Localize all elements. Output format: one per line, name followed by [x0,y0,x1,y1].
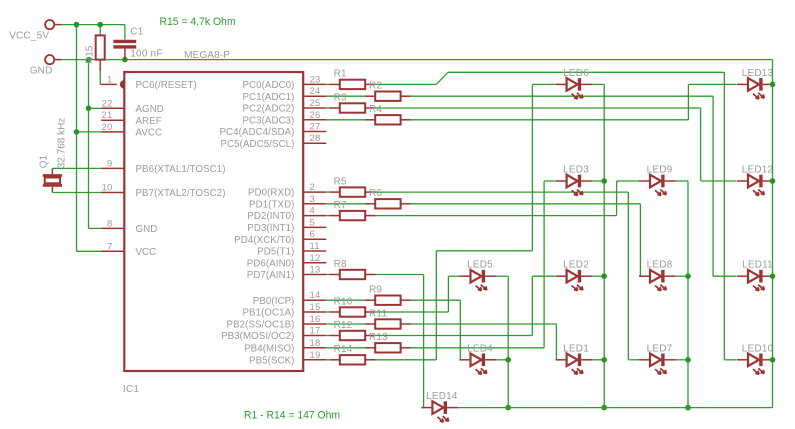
LED LED13 [737,68,774,99]
svg-text:LED3: LED3 [563,165,589,176]
svg-text:24: 24 [310,86,321,97]
svg-text:PC2(ADC2): PC2(ADC2) [242,104,294,115]
svg-text:LED5: LED5 [467,260,493,271]
svg-text:20: 20 [102,122,113,133]
IC1 pin 26 PC3(ADC3) [242,110,326,127]
svg-text:PC1(ADC1): PC1(ADC1) [242,92,294,103]
IC1 pin 11 PD5(T1) [257,241,326,258]
wire cathode rail column 3 [676,181,691,410]
svg-text:27: 27 [310,122,321,133]
wire net R9 to LED4 [411,300,460,360]
svg-text:R13: R13 [369,332,388,343]
LED LED4 [460,343,497,374]
svg-text:R12: R12 [334,320,353,331]
resistor R13 [365,332,411,352]
LED LED3 [556,165,593,196]
wire pin17 to R12 [326,335,329,337]
IC1 pin 5 PD3(INT1) [247,217,326,234]
svg-text:PB7(XTAL2/TOSC2): PB7(XTAL2/TOSC2) [136,188,226,199]
svg-text:LED8: LED8 [647,260,673,271]
svg-text:R9: R9 [369,285,382,296]
IC1 pin 21 AREF [101,110,162,127]
IC1 pin 19 PB5(SCK) [249,350,326,367]
capacitor C1 [113,25,162,60]
resistor R10 [329,296,375,316]
IC1 pin 3 PD1(TXD) [249,194,326,211]
wire pin14 to R9 [326,299,365,301]
IC1 pin 8 GND [101,218,157,235]
svg-text:LED6: LED6 [563,68,589,79]
svg-text:PD3(INT1): PD3(INT1) [247,223,294,234]
svg-text:LED13: LED13 [742,68,774,79]
wire pin16 to R11 [326,323,365,325]
svg-text:28: 28 [310,133,321,144]
wire pin23 to R1 [326,83,329,85]
wire cathode rail column 1 [496,276,511,410]
svg-text:VCC: VCC [136,247,157,258]
LED LED14 [421,391,458,422]
svg-text:PC4(ADC4/SDA): PC4(ADC4/SDA) [219,127,294,138]
wire pin25 to R3 [326,107,329,109]
wire pin18 to R13 [326,347,365,349]
svg-text:LED7: LED7 [647,343,673,354]
svg-text:LED14: LED14 [426,391,458,402]
svg-text:9: 9 [107,158,112,169]
svg-text:13: 13 [310,265,321,276]
svg-text:12: 12 [310,253,321,264]
svg-text:PB5(SCK): PB5(SCK) [249,355,294,366]
svg-text:LED10: LED10 [742,343,774,354]
IC1 pin 15 PB1(OC1A) [242,302,326,319]
IC1 pin 23 PC0(ADC0) [242,74,326,91]
svg-text:PB1(OC1A): PB1(OC1A) [242,308,294,319]
resistor R8 [329,259,375,279]
resistor R9 [365,285,411,305]
wire pin13 to R8 [326,274,329,276]
resistor R4 [365,104,411,124]
wire net R2 to LED11 [411,96,737,276]
IC1 pin 20 AVCC [101,122,162,139]
resistor R1 [329,69,375,89]
svg-text:R1 - R14 = 147 Ohm: R1 - R14 = 147 Ohm [244,410,340,422]
IC1 pin 16 PB2(SS/OC1B) [227,314,327,331]
IC1 pin 27 PC4(ADC4/SDA) [219,122,326,139]
wire pin4 to R7 [326,215,329,217]
svg-text:R11: R11 [369,308,387,319]
wire net R14 to LED6 [376,84,556,359]
wire pin24 to R2 [326,95,365,97]
LED LED5 [460,260,497,291]
svg-text:Q1: Q1 [39,155,50,169]
svg-text:AREF: AREF [136,116,162,127]
svg-text:PD6(AIN0): PD6(AIN0) [247,258,295,269]
IC IC1 MEGA8-P body [123,50,303,395]
svg-text:25: 25 [310,98,321,109]
svg-text:MEGA8-P: MEGA8-P [184,50,230,61]
svg-text:PD1(TXD): PD1(TXD) [249,199,294,210]
svg-text:8: 8 [107,218,112,229]
svg-text:5: 5 [310,217,315,228]
svg-text:4: 4 [310,206,315,217]
svg-text:11: 11 [310,241,320,252]
svg-text:10: 10 [102,183,113,194]
svg-text:LED2: LED2 [563,260,589,271]
IC1 pin 14 PB0(ICP) [253,290,327,307]
LED LED2 [556,260,593,291]
svg-text:IC1: IC1 [123,384,139,395]
svg-text:PD5(T1): PD5(T1) [257,247,294,258]
svg-text:VCC_5V: VCC_5V [9,30,49,41]
resistor R14 [329,344,375,364]
svg-text:PD7(AIN1): PD7(AIN1) [247,270,295,281]
wire VCC net [62,22,125,252]
wire cathode rail column 4 [770,60,776,408]
svg-text:PD0(RXD): PD0(RXD) [248,188,295,199]
svg-text:R5: R5 [334,176,347,187]
svg-text:PC5(ADC5/SCL): PC5(ADC5/SCL) [221,139,295,150]
resistor R6 [365,188,411,208]
resistor R3 [329,92,375,112]
LED LED12 [737,165,774,196]
IC1 pin 12 PD6(AIN0) [247,253,327,270]
wire pin26 to R4 [326,119,365,121]
svg-text:15: 15 [310,302,321,313]
wire net R10 to LED5 [376,276,460,312]
svg-text:21: 21 [102,110,113,121]
svg-text:R6: R6 [369,188,382,199]
LED LED7 [639,343,676,374]
resistor R2 [365,81,411,101]
svg-text:PD2(INT0): PD2(INT0) [247,211,294,222]
wire GND net [62,57,773,229]
svg-text:R7: R7 [334,200,347,211]
crystal Q1 [39,118,68,193]
svg-text:PD4(XCK/T0): PD4(XCK/T0) [234,235,294,246]
svg-text:GND: GND [136,224,158,235]
svg-text:2: 2 [310,182,315,193]
resistor R12 [329,320,375,340]
svg-text:LED12: LED12 [742,165,774,176]
svg-text:LED4: LED4 [467,343,493,354]
wire net R3 to LED12 [376,108,737,181]
svg-text:R2: R2 [369,81,382,92]
svg-text:AVCC: AVCC [136,128,163,139]
IC1 pin 2 PD0(RXD) [248,182,326,199]
svg-text:14: 14 [310,290,321,301]
svg-text:6: 6 [310,229,315,240]
IC1 pin 22 AGND [101,98,164,115]
IC1 pin 10 PB7(XTAL2/TOSC2) [101,183,225,200]
wire net R8 to LED14 [376,275,424,408]
IC1 pin 17 PB3(MOSI/OC2) [221,326,326,343]
svg-text:R15: R15 [85,45,96,64]
svg-text:LED9: LED9 [647,165,673,176]
svg-text:22: 22 [102,98,113,109]
wire net R1 to LED10 [376,72,737,360]
wire net R6 to LED8 [411,204,650,276]
svg-text:C1: C1 [130,27,143,38]
IC1 pin 1 PC6(/RESET) [101,74,197,91]
resistor R7 [329,200,375,220]
resistor R5 [329,176,375,196]
wire pin19 to R14 [326,359,329,361]
supply pin VCC_5V [9,20,61,41]
wire crystal to pins 9 10 [52,168,101,192]
wire net R7 to LED9 [376,181,640,216]
wire pin15 to R10 [326,311,329,313]
svg-text:PC3(ADC3): PC3(ADC3) [242,115,294,126]
svg-text:19: 19 [310,350,321,361]
supply pin GND [30,55,62,76]
wire bottom rail [458,407,772,409]
svg-text:R1: R1 [334,69,347,80]
svg-text:PB0(ICP): PB0(ICP) [253,296,295,307]
svg-text:100 nF: 100 nF [130,49,162,60]
LED LED11 [737,260,773,291]
resistor R15 [85,25,105,71]
wire net R4 to LED13 [411,84,737,119]
svg-text:R10: R10 [334,296,353,307]
wire net R13 to LED3 [411,181,555,348]
svg-text:R8: R8 [334,259,347,270]
svg-text:PB4(MISO): PB4(MISO) [244,343,294,354]
svg-text:R4: R4 [369,104,382,115]
wire pin3 to R6 [326,203,365,205]
wire net R5 to LED7 [376,192,640,360]
wire pin2 to R5 [326,191,329,193]
svg-text:PB3(MOSI/OC2): PB3(MOSI/OC2) [221,331,294,342]
IC1 pin 6 PD4(XCK/T0) [234,229,326,246]
svg-text:17: 17 [310,326,321,337]
svg-text:26: 26 [310,110,321,121]
note R1-R14 value [244,410,340,422]
IC1 pin 13 PD7(AIN1) [247,265,327,282]
wire net R11 to LED1 [411,324,556,360]
svg-text:PB6(XTAL1/TOSC1): PB6(XTAL1/TOSC1) [136,164,226,175]
svg-text:16: 16 [310,314,321,325]
svg-text:18: 18 [310,338,321,349]
resistor R11 [365,308,411,328]
wire net R12 to LED2 [376,276,556,335]
svg-text:R3: R3 [334,92,347,103]
LED LED10 [737,343,774,374]
svg-text:PC6(/RESET): PC6(/RESET) [136,80,197,91]
IC1 pin 25 PC2(ADC2) [242,98,326,115]
wire cathode rail column 2 [592,84,607,410]
svg-text:R14: R14 [334,344,353,355]
IC1 pin 18 PB4(MISO) [244,338,326,355]
note R15 value [160,16,236,28]
svg-text:GND: GND [30,65,53,76]
svg-text:32.768 kHz: 32.768 kHz [57,118,68,169]
LED LED6 [556,68,593,99]
IC1 pin 4 PD2(INT0) [247,206,326,223]
svg-text:23: 23 [310,74,321,85]
svg-text:1: 1 [107,74,112,85]
svg-text:7: 7 [107,241,112,252]
svg-text:PC0(ADC0): PC0(ADC0) [242,80,294,91]
svg-text:PB2(SS/OC1B): PB2(SS/OC1B) [227,320,295,331]
IC1 pin 9 PB6(XTAL1/TOSC1) [101,158,225,175]
LED LED1 [556,343,593,374]
svg-text:LED1: LED1 [563,343,589,354]
svg-text:LED11: LED11 [742,260,773,271]
LED LED9 [639,165,676,196]
svg-text:AGND: AGND [136,104,164,115]
IC1 pin 24 PC1(ADC1) [242,86,326,103]
IC1 pin 7 VCC [101,241,156,258]
svg-text:3: 3 [310,194,315,205]
LED LED8 [639,260,676,291]
wire R15 to pin1 [100,71,102,84]
svg-text:R15 = 4,7k Ohm: R15 = 4,7k Ohm [160,16,236,28]
IC1 pin 28 PC5(ADC5/SCL) [221,133,327,150]
